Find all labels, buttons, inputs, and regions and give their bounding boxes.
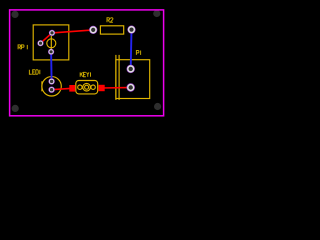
mounting hole top-right (153, 10, 160, 17)
pad KEY1-A smd (69, 85, 75, 92)
resistor R2 silkscreen body (100, 26, 123, 34)
pad RP1-2 (37, 40, 43, 46)
pad LED1-1 (48, 78, 54, 84)
wire red KEY1 pad B to P1 pad2 (102, 87, 131, 90)
wire blue RP1 pad3 to LED1 anode (50, 52, 53, 82)
label P1 (136, 51, 140, 55)
label R2 (107, 18, 113, 22)
connector P1 silkscreen box (116, 55, 150, 100)
pad P1-1 (127, 65, 135, 73)
mounting hole top-left (11, 11, 18, 18)
mounting hole bottom-left (12, 105, 19, 112)
switch KEY1 silkscreen (76, 81, 98, 94)
board outline keepout (10, 10, 164, 116)
pad RP1-1 (49, 30, 55, 36)
wire red RP1 pad2 to pad1 (41, 33, 53, 43)
wire red RP1 pad1 to R2 pad1 (52, 30, 93, 33)
pad R2-2 (127, 26, 135, 34)
mounting hole bottom-right (154, 103, 161, 110)
wire red LED1 cathode to KEY1 pad A (52, 88, 73, 89)
LED LED1 silkscreen circle (42, 77, 61, 96)
label LED1 (29, 70, 39, 74)
resistor-pack RP1 silkscreen box (33, 25, 69, 60)
label KEY1 (80, 72, 90, 76)
pad LED1-2 (48, 87, 54, 93)
pad R2-1 (89, 26, 97, 34)
pad P1-2 (127, 83, 135, 91)
label RP1 (18, 45, 27, 49)
pad RP1-3 (48, 49, 54, 55)
wire blue R2 pad2 to P1 pad1 (130, 30, 133, 69)
pad KEY1-B smd (99, 85, 105, 91)
